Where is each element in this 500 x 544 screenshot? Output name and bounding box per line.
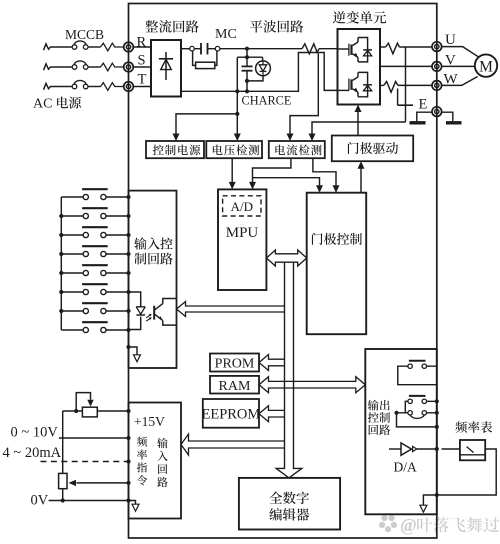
switch S2 xyxy=(61,215,83,217)
wire AC phase R input xyxy=(44,44,73,50)
label gate control xyxy=(312,233,323,245)
node tap control-power xyxy=(235,112,239,116)
main control-board frame xyxy=(129,4,437,539)
svg-text:D/A: D/A xyxy=(394,460,418,475)
terminal T xyxy=(124,82,134,92)
terminal V xyxy=(432,62,442,72)
svg-text:@: @ xyxy=(400,515,417,535)
wire tap to control-power xyxy=(176,114,237,135)
wire shunt tap to current-detect xyxy=(290,54,318,136)
MCCB breaker pole T xyxy=(72,84,77,89)
wire gate-drive to inverter xyxy=(357,110,359,135)
node switch S6 bus xyxy=(59,290,63,294)
wire voltage-detect to MPU xyxy=(231,158,233,183)
label frequency meter xyxy=(455,421,467,433)
node pot frame xyxy=(126,409,130,413)
node rail-bracket xyxy=(235,89,239,93)
node switch S2 bus xyxy=(59,214,63,218)
node K2 c xyxy=(435,425,439,429)
optocoupler phototransistor xyxy=(153,306,155,320)
svg-text:E: E xyxy=(419,97,428,113)
wire pot line xyxy=(63,410,83,412)
node switch S8 frame xyxy=(126,328,130,332)
node switch S4 bus xyxy=(59,252,63,256)
node switch S7 bus xyxy=(59,309,63,313)
svg-text:MC: MC xyxy=(215,27,237,42)
svg-text:T: T xyxy=(138,72,147,88)
svg-text:U: U xyxy=(445,32,456,48)
wire lamp branch xyxy=(247,57,263,81)
IGBT Q1 transistor xyxy=(350,45,352,55)
node switch S7 frame xyxy=(126,309,130,313)
thermal element zigzag S xyxy=(101,63,124,71)
output control box xyxy=(365,349,437,514)
wire MC to DC bus node xyxy=(220,48,247,50)
ground bar E right xyxy=(446,121,462,124)
frequency meter box xyxy=(460,440,485,460)
box gate drive xyxy=(332,136,413,162)
wire meter in xyxy=(442,448,460,450)
IGBT Q2 transistor xyxy=(350,79,352,89)
wire bus node down xyxy=(246,49,248,58)
wire U output xyxy=(380,46,386,48)
label input circuit xyxy=(157,438,167,448)
wire current-detect to MPU xyxy=(253,158,291,183)
node 0V frame xyxy=(126,498,130,502)
potentiometer loop arrow xyxy=(76,393,90,411)
rectifier diode xyxy=(165,52,167,80)
svg-text:CHARCE: CHARCE xyxy=(242,94,292,108)
node K2 left xyxy=(394,411,398,415)
svg-text:EEPROM: EEPROM xyxy=(201,406,260,422)
wire V output xyxy=(380,65,432,67)
switch S3 xyxy=(61,234,83,236)
svg-text:RAM: RAM xyxy=(219,379,251,394)
switch S4 xyxy=(61,253,83,255)
bus vertical to editor xyxy=(276,262,302,478)
node DC bus junction xyxy=(245,47,249,51)
svg-text:AC: AC xyxy=(33,97,52,112)
resistor pot-divider xyxy=(59,473,67,488)
wire rectifier to MC xyxy=(181,48,190,50)
MCCB breaker pole S xyxy=(72,65,77,70)
IGBT Q2 cell loop xyxy=(358,72,368,96)
svg-text:+15V: +15V xyxy=(134,414,165,429)
wire U to motor xyxy=(442,47,479,57)
svg-text:PROM: PROM xyxy=(215,357,255,372)
contactor MC xyxy=(190,46,195,51)
D/A converter xyxy=(389,448,401,450)
svg-text:R: R xyxy=(137,35,147,51)
MCCB breaker pole R xyxy=(72,45,77,50)
wire terminal T to rectifier xyxy=(133,86,151,88)
precharge resistor xyxy=(193,51,217,66)
charge lamp CHARCE xyxy=(256,61,271,76)
node rail-cap xyxy=(245,89,249,93)
node K2 a xyxy=(435,399,439,403)
wire 0V line xyxy=(49,500,129,502)
input circuit box xyxy=(129,403,182,519)
wire meter return xyxy=(437,449,496,495)
terminal W xyxy=(432,81,442,91)
thermal element zigzag T xyxy=(101,83,124,91)
wire terminal S to rectifier xyxy=(133,66,151,68)
wire W output xyxy=(380,84,384,86)
rectifier box xyxy=(151,40,181,97)
A/D dashed box xyxy=(223,196,261,216)
wire wiper arrow xyxy=(77,482,129,484)
label input control xyxy=(134,237,146,249)
inverter box xyxy=(338,29,381,105)
wire current-detect to gate control xyxy=(313,158,336,187)
label freq command xyxy=(137,437,147,447)
svg-text:M: M xyxy=(479,59,493,76)
node 0-10V frame xyxy=(126,436,130,440)
wire negative rail xyxy=(181,53,338,92)
wire V to motor xyxy=(442,65,475,67)
node pot loop xyxy=(74,409,78,413)
ground stub input-circuit xyxy=(126,498,130,502)
node D/A out xyxy=(435,447,439,451)
wire branch to gate control xyxy=(253,178,320,187)
IGBT Q1 cell loop xyxy=(358,38,368,62)
label editor xyxy=(269,492,282,504)
switch S6 xyxy=(61,291,83,293)
relay contact K2 xyxy=(409,395,426,397)
watermark xyxy=(385,526,391,532)
optocoupler LED xyxy=(136,307,145,314)
switch S5 xyxy=(61,272,83,274)
PROM box xyxy=(210,354,259,372)
wire AC phase T input xyxy=(44,83,73,89)
node switch S5 bus xyxy=(59,271,63,275)
node cap bottom xyxy=(245,79,249,83)
node cap top xyxy=(245,55,249,59)
switch S8 xyxy=(61,329,83,331)
label smoothing circuit xyxy=(250,20,262,32)
gate control box xyxy=(307,193,367,335)
resistor W sense xyxy=(384,82,398,93)
wire bracket to voltage-detect xyxy=(236,91,238,135)
wire U tap to current sense line xyxy=(405,47,407,122)
wire bracket left xyxy=(236,57,238,91)
svg-text:0 ~ 10V: 0 ~ 10V xyxy=(11,425,59,441)
input control box xyxy=(129,191,177,368)
svg-text:0V: 0V xyxy=(31,493,49,509)
wire upper DC bus xyxy=(247,48,302,50)
optocoupler light arrows xyxy=(146,315,151,322)
editor box xyxy=(239,478,340,530)
RAM box xyxy=(210,376,259,394)
wire W tap xyxy=(397,89,399,106)
thermal element zigzag R xyxy=(101,43,124,51)
node wiper frame xyxy=(126,481,130,485)
terminal U xyxy=(432,42,442,52)
box control power supply xyxy=(146,141,204,158)
wire current sense line xyxy=(312,122,406,135)
IGBT Q2 gate lead xyxy=(338,89,349,91)
wire AC phase S input xyxy=(44,64,73,70)
node switch S3 frame xyxy=(126,233,130,237)
wire analog rail xyxy=(62,411,64,473)
ground stub output-control xyxy=(435,493,439,497)
bus arrow to EEPROM xyxy=(259,406,285,422)
box current detect xyxy=(269,141,325,158)
svg-text:A/D: A/D xyxy=(231,199,253,214)
optocoupler LED loop xyxy=(129,292,141,330)
svg-text:4 ~ 20mA: 4 ~ 20mA xyxy=(3,445,62,461)
label rectifier circuit xyxy=(145,20,158,32)
wire cap bottom to rail xyxy=(246,81,248,91)
EEPROM box xyxy=(203,399,259,428)
node switch S4 frame xyxy=(126,252,130,256)
wire E right lead xyxy=(442,112,453,121)
wire terminal R to rectifier xyxy=(133,46,151,48)
ground stub input-control xyxy=(126,345,130,349)
svg-text:MCCB: MCCB xyxy=(65,27,104,42)
potentiometer body xyxy=(82,407,97,417)
terminal E xyxy=(432,107,442,117)
node K2 b xyxy=(435,411,439,415)
node switch S5 frame xyxy=(126,271,130,275)
capacitor smoothing C xyxy=(246,57,248,65)
resistor shunt R-bus xyxy=(302,44,319,54)
node switch S6 frame xyxy=(126,290,130,294)
IGBT Q1 gate lead xyxy=(338,48,349,50)
diode D1 freewheel xyxy=(363,49,372,51)
ground bar inverter xyxy=(410,121,426,124)
terminal S xyxy=(124,62,134,72)
MPU box xyxy=(218,189,266,290)
node switch S2 frame xyxy=(126,214,130,218)
terminal R xyxy=(124,42,134,52)
bus MPU-gatecontrol double arrow xyxy=(266,250,306,266)
label inverter unit xyxy=(333,11,346,23)
wire gate-control to gate-drive xyxy=(360,167,362,193)
diode D2 freewheel xyxy=(363,84,372,86)
resistor U sense xyxy=(386,43,400,54)
switch bank left bus xyxy=(60,197,62,330)
wire lamp top rail xyxy=(237,56,262,58)
bus double arrow RAM to output-control xyxy=(259,377,365,393)
svg-text:MPU: MPU xyxy=(226,225,259,241)
node 4-20mA frame xyxy=(126,459,130,463)
bus arrow to input-circuit xyxy=(181,434,285,455)
node 0V rail xyxy=(61,498,65,502)
switch S7 xyxy=(61,310,83,312)
wire E left lead xyxy=(417,112,432,121)
svg-text:S: S xyxy=(138,53,146,69)
bus arrow to input-control xyxy=(177,302,285,317)
capacitor snubber plate xyxy=(398,104,414,106)
node switch S1 frame xyxy=(126,195,130,199)
wire W to motor xyxy=(442,77,478,86)
node switch S3 bus xyxy=(59,233,63,237)
wire 4-20mA dashed xyxy=(41,461,128,463)
motor M xyxy=(475,54,497,76)
wire 0-10V line xyxy=(59,437,129,439)
relay contact K1 xyxy=(409,360,426,362)
box voltage detect xyxy=(206,141,262,158)
switch S1 xyxy=(61,196,83,198)
bus arrow to PROM xyxy=(259,355,285,371)
label output control xyxy=(368,400,379,411)
